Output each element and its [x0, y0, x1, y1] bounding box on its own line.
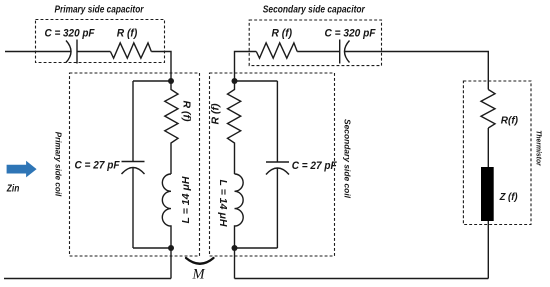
svg-text:Secondary side capacitor: Secondary side capacitor	[263, 4, 366, 15]
svg-text:C = 27 pF: C = 27 pF	[75, 159, 120, 171]
svg-text:C = 320 pF: C = 320 pF	[45, 27, 95, 39]
svg-text:R(f): R(f)	[501, 116, 519, 127]
svg-text:R (f): R (f)	[272, 27, 293, 39]
secondary side coil box (dashed)	[210, 73, 335, 256]
wire: capacitor to resistor (primary)	[77, 51, 110, 53]
svg-text:Zin: Zin	[6, 183, 19, 195]
wire: secondary loop bottom	[235, 247, 278, 249]
inductor L1 = 14 uH (primary)	[162, 174, 171, 248]
svg-text:Primary side capacitor: Primary side capacitor	[55, 4, 145, 15]
svg-text:Thermistor: Thermistor	[535, 130, 544, 166]
wire: secondary cap branch upper	[276, 81, 278, 162]
node: secondary bottom junction	[232, 245, 238, 251]
capacitor C4 = 27 pF (secondary coil)	[266, 162, 289, 175]
wire: primary cap branch upper	[132, 81, 134, 161]
svg-text:C = 27 pF: C = 27 pF	[292, 160, 337, 172]
wire: bottom return (right)	[235, 278, 489, 280]
svg-text:Secondary side coil: Secondary side coil	[343, 119, 353, 199]
capacitor C3 = 320 pF (secondary series, curved plate)	[340, 40, 350, 64]
wire: primary loop bottom	[133, 247, 171, 249]
svg-text:L = 14 μH: L = 14 μH	[217, 180, 228, 228]
node: secondary top junction	[232, 78, 238, 84]
svg-text:L = 14 μH: L = 14 μH	[181, 176, 192, 224]
Zin input arrow	[7, 161, 37, 178]
wire: primary loop top	[133, 80, 171, 82]
svg-text:R (f): R (f)	[117, 27, 138, 39]
inductor L2 = 14 uH (secondary)	[235, 174, 244, 248]
primary side coil box (dashed)	[70, 73, 200, 256]
wire: primary cap branch lower	[132, 168, 134, 249]
wire: secondary cap branch lower	[276, 168, 278, 249]
wire: resistor to Z element	[487, 128, 489, 167]
svg-text:Z (f): Z (f)	[499, 192, 519, 203]
mutual coupling arc M	[186, 258, 214, 264]
wire: input lead to primary capacitor	[5, 51, 71, 53]
wire: secondary loop top	[235, 80, 278, 82]
node: primary top junction	[168, 78, 174, 84]
wire: Z element to bottom return	[487, 221, 489, 279]
svg-text:M: M	[191, 267, 205, 283]
thermistor element Z(f) (black bar)	[481, 167, 494, 221]
node: primary bottom junction	[168, 245, 174, 251]
capacitor C2 = 27 pF (primary coil)	[122, 162, 145, 175]
thermistor box (dashed)	[463, 81, 531, 225]
svg-text:R (f): R (f)	[211, 103, 222, 125]
resistor R1 R(f) (primary series)	[110, 43, 151, 58]
resistor R5 R(f) (thermistor branch)	[481, 90, 495, 129]
svg-text:R (f): R (f)	[180, 101, 191, 123]
wire: capacitor to thermistor branch	[344, 52, 488, 90]
svg-text:Primary side coil: Primary side coil	[54, 132, 63, 197]
resistor R4 R(f) (secondary coil)	[228, 81, 241, 174]
primary side capacitor box (dashed)	[36, 20, 165, 63]
wire: resistor to capacitor (secondary)	[297, 51, 340, 53]
svg-text:C = 320 pF: C = 320 pF	[325, 27, 376, 39]
wire: resistor to primary coil top node	[151, 52, 171, 82]
capacitor C1 = 320 pF (primary series, curved plate)	[66, 40, 77, 64]
wire: bottom return (left)	[4, 278, 171, 280]
secondary side capacitor box (dashed)	[249, 20, 381, 66]
wire: secondary riser	[235, 52, 257, 82]
wire: secondary bottom node to return	[234, 248, 236, 279]
resistor R3 R(f) (secondary series)	[256, 43, 297, 58]
resistor R2 R(f) (primary coil)	[165, 81, 178, 174]
wire: primary bottom node to return	[170, 248, 172, 279]
